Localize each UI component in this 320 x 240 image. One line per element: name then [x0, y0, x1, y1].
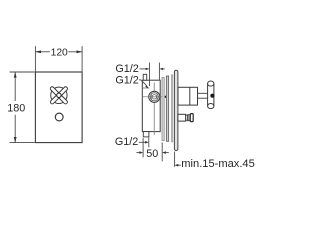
outlet mid ring	[186, 115, 188, 120]
svg-text:min.15-max.45: min.15-max.45	[181, 158, 255, 170]
dimension 120: dimension line	[35, 51, 49, 53]
handle (side): shaft	[208, 84, 214, 107]
mounting ring 3	[171, 75, 172, 142]
side view: valve body	[142, 80, 160, 131]
mounting ring 1	[162, 78, 164, 141]
dimension 180: top arrow	[14, 72, 17, 78]
top dimension: extension line right	[158, 63, 160, 81]
dimension 120: right arrow	[77, 50, 83, 53]
svg-text:180: 180	[7, 103, 25, 115]
dimension 120: left arrow	[35, 50, 41, 53]
leader G1/2 second	[139, 79, 141, 81]
svg-text:50: 50	[146, 148, 158, 160]
front view: cross handle arm 2	[50, 86, 69, 105]
min-max dimension: arrow	[175, 164, 179, 167]
side view: top inlet port	[143, 74, 147, 80]
dimension 50: extension line C	[161, 143, 163, 162]
handle (side): top knob ellipse	[208, 81, 214, 86]
handle stem	[198, 92, 208, 94]
dimension 50: extension line A	[142, 138, 144, 157]
mounting ring 2	[166, 76, 168, 141]
front view: diverter button	[55, 113, 63, 121]
dimension 50: left arrow with tail	[136, 152, 140, 154]
cartridge divider	[189, 87, 191, 105]
svg-text:G1/2: G1/2	[115, 75, 138, 87]
svg-text:G1/2: G1/2	[115, 63, 138, 75]
dimension 120: extension lines	[34, 46, 36, 71]
side view: vertical centerline	[153, 83, 155, 92]
leader G1/2 bottom	[139, 141, 146, 143]
outlet end flange	[190, 114, 193, 122]
front view: wall plate rectangle	[35, 72, 82, 143]
side view: centerline arrow	[165, 96, 168, 99]
wall escutcheon plate	[174, 70, 178, 150]
cartridge housing	[178, 87, 198, 105]
dimension 180: bottom arrow	[14, 137, 17, 143]
leader G1/2 first	[140, 68, 147, 70]
side view: body internal line	[143, 87, 150, 89]
side view: side inlet circle outer	[149, 91, 160, 102]
svg-text:120: 120	[51, 48, 68, 59]
dimension 50: extension line B	[148, 138, 150, 148]
top dimension: right arrow with tail	[159, 68, 163, 70]
dimension 50: right arrow with tail	[162, 151, 166, 154]
front outlet spout stub	[178, 114, 186, 121]
handle (side): bottom knob ellipse	[208, 104, 214, 109]
side view: inlet horizontal centerline	[143, 96, 166, 98]
front view: cross handle arm 1	[50, 86, 69, 105]
outlet ridge section	[188, 115, 191, 121]
side view: side inlet circle inner	[152, 95, 156, 99]
dimension 180: dimension line	[14, 72, 16, 101]
handle (side): hub dot	[210, 94, 214, 98]
side view: bottom outlet port	[143, 132, 149, 137]
front view: handle rosette circle	[51, 87, 67, 103]
dimension 180: extension lines	[10, 71, 35, 73]
svg-text:G1/2: G1/2	[115, 136, 138, 148]
side view: side inlet circle middle	[150, 93, 158, 101]
top dimension: extension line left	[149, 63, 151, 87]
front view: handle hub	[57, 93, 61, 97]
min-max dimension: extension line from plate	[174, 152, 176, 167]
